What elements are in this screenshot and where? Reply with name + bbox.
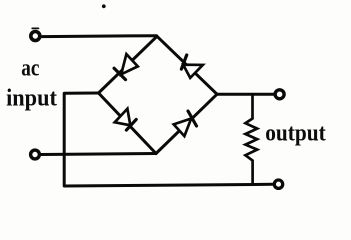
wire bridge arm top-right [157,36,217,94]
terminal top-left [31,32,40,41]
stray ink dash above top-left terminal [32,27,38,29]
diode D4 cathode bar [188,111,197,126]
terminal lower-left [31,150,40,159]
wire bridge right node to output terminal [217,93,273,96]
wire bridge arm bottom-right [156,94,217,153]
diode D3 triangle (bottom-left arm, pointing to bottom node) [115,109,131,126]
wire bridge arm bottom-left [99,93,157,154]
wire top-left terminal to bridge top node [42,34,157,38]
wire bridge left node to bottom rail (left corner, down, bottom rail) [64,93,273,186]
stray ink dot top centre [102,4,106,8]
diode D3 cathode bar [126,119,136,130]
resistor R (load) [245,94,257,184]
svg-text:input: input [6,86,57,112]
terminal top-right (output +) [275,90,284,99]
diode D4 triangle (bottom-right arm, pointing to right node) [174,119,192,137]
diode D1 triangle (top-left arm, pointing to left node) [121,54,138,74]
wire lower-left terminal to bridge bottom node [41,154,156,155]
wire bridge arm top-left [99,36,158,93]
diode D2 cathode bar [181,55,186,69]
diode D2 triangle (top-right arm, pointing to top node) [183,65,203,78]
terminal bottom-right (output -) [274,180,282,188]
svg-text:ac: ac [21,56,39,82]
svg-text:output: output [265,121,326,147]
diode D1 cathode bar [114,68,125,79]
